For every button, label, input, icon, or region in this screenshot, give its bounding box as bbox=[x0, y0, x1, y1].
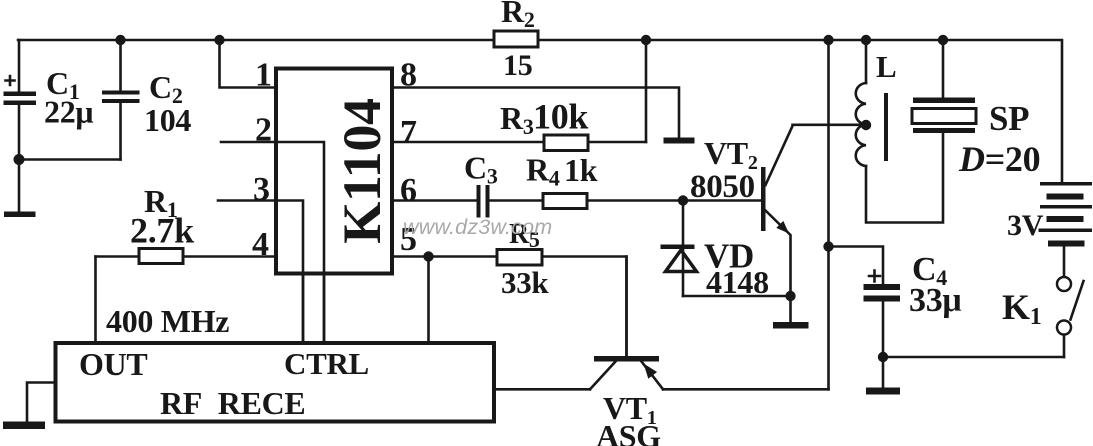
svg-text:CTRL: CTRL bbox=[284, 346, 369, 381]
svg-text:8: 8 bbox=[400, 57, 417, 94]
svg-text:1: 1 bbox=[255, 57, 272, 94]
svg-text:www.dz3w.com: www.dz3w.com bbox=[403, 215, 552, 239]
svg-text:D=20: D=20 bbox=[958, 139, 1040, 179]
svg-text:1k: 1k bbox=[564, 152, 598, 188]
svg-text:6: 6 bbox=[400, 172, 417, 209]
svg-text:K1104: K1104 bbox=[332, 98, 392, 244]
svg-text:4148: 4148 bbox=[706, 264, 769, 300]
svg-text:4: 4 bbox=[252, 226, 269, 263]
svg-text:SP: SP bbox=[989, 99, 1029, 138]
svg-text:2.7k: 2.7k bbox=[130, 211, 194, 251]
svg-text:OUT: OUT bbox=[79, 346, 147, 382]
svg-text:7: 7 bbox=[400, 114, 417, 151]
svg-text:400 MHz: 400 MHz bbox=[106, 303, 229, 339]
svg-text:3V: 3V bbox=[1007, 209, 1044, 242]
svg-text:3: 3 bbox=[253, 171, 270, 208]
svg-text:15: 15 bbox=[503, 49, 532, 82]
svg-text:10k: 10k bbox=[533, 97, 588, 137]
svg-text:104: 104 bbox=[144, 102, 191, 138]
svg-text:L: L bbox=[876, 49, 896, 84]
svg-text:22μ: 22μ bbox=[44, 94, 93, 130]
svg-text:RF RECE: RF RECE bbox=[160, 385, 305, 421]
svg-text:33μ: 33μ bbox=[909, 282, 961, 319]
svg-text:2: 2 bbox=[255, 112, 272, 149]
svg-text:ASG: ASG bbox=[596, 418, 661, 446]
svg-text:8050: 8050 bbox=[690, 169, 755, 205]
svg-text:33k: 33k bbox=[501, 265, 549, 300]
